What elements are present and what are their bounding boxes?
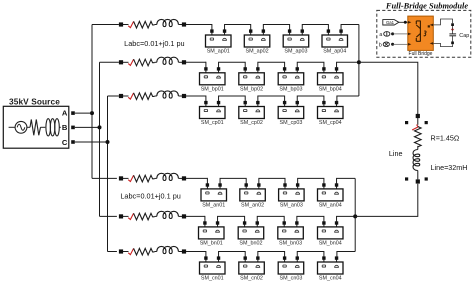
wire SM_bn03 to SM_bn04 (297, 216, 324, 223)
wire cp branch lead-in (121, 95, 129, 97)
wire C stub (75, 141, 108, 143)
svg-text:SM_an03: SM_an03 (280, 203, 303, 209)
wire SM_an01 to SM_an02 (220, 178, 246, 185)
wire R to L bn (155, 215, 157, 217)
svg-text:Ga1: Ga1 (386, 20, 395, 25)
wire SM_ap01 to SM_ap02 (225, 25, 251, 32)
SM block SM_cp02 (239, 101, 264, 126)
wire SM_an02 to SM_an03 (259, 178, 285, 185)
svg-text:SM_ap01: SM_ap01 (207, 49, 230, 55)
inductor line coils (413, 150, 420, 171)
junction node C (106, 140, 110, 144)
SM block SM_cn01 (200, 256, 226, 281)
wire R to L cn (155, 251, 157, 253)
wire L to terminal bp (178, 61, 184, 63)
terminal square an left (119, 176, 123, 180)
dashed detail box (377, 10, 471, 57)
terminal square C (71, 140, 75, 144)
svg-text:Line: Line (389, 149, 403, 158)
SM block SM_bp03 (278, 67, 304, 92)
capacitor Cap plates (452, 26, 454, 34)
resistor R_bn red polarity mark (128, 213, 133, 219)
capacitor Cap red mark (451, 28, 454, 31)
resistor R_cn zigzag (134, 248, 155, 255)
terminal square ap left (119, 22, 123, 26)
svg-text:Full-Bridge Submodule: Full-Bridge Submodule (385, 1, 468, 10)
svg-text:SM_an04: SM_an04 (319, 203, 342, 209)
wire bottom bus to cn chain (337, 252, 355, 259)
wire bottom bus to line (355, 184, 418, 217)
wire R to L bp (155, 61, 157, 63)
wire SM_cp02 to SM_cp03 (258, 96, 285, 103)
Line block corner handles (405, 121, 428, 181)
svg-text:B: B (62, 123, 68, 132)
source inner wire (27, 126, 30, 128)
SM block SM_bn02 (238, 221, 264, 246)
wire SM_an03 to SM_an04 (298, 178, 324, 185)
svg-text:A: A (62, 109, 68, 118)
terminal square bn left (119, 214, 123, 218)
SM block SM_cn03 (278, 256, 304, 281)
svg-text:b: b (379, 42, 382, 48)
inductor L_cp coils (157, 91, 179, 98)
resistor R_cp red polarity mark (128, 93, 133, 99)
wire SM_cp01 to SM_cp02 (219, 96, 246, 103)
terminal square cn right (182, 249, 186, 253)
wire SM_cp03 to SM_cp04 (297, 96, 324, 103)
svg-text:SM_an01: SM_an01 (202, 203, 225, 209)
wire SM_ap03 to SM_ap04 (302, 25, 328, 32)
wire SM_bn02 to SM_bn03 (257, 216, 284, 223)
source inner inductor (46, 119, 51, 136)
SM block SM_cp01 (200, 101, 226, 126)
svg-text:SM_cp04: SM_cp04 (319, 120, 342, 126)
SM block SM_bp04 (318, 67, 344, 92)
wire B stub (75, 126, 100, 128)
svg-text:SM_cn03: SM_cn03 (280, 276, 303, 282)
junction top bus node (357, 60, 361, 64)
SM block SM_ap01 (206, 29, 232, 54)
svg-text:SM_cn02: SM_cn02 (240, 276, 263, 282)
svg-text:Full Bridge: Full Bridge (409, 51, 433, 57)
wire SM_bp01 to SM_bp02 (219, 62, 246, 69)
terminal square cn left (119, 249, 123, 253)
svg-text:a: a (379, 32, 382, 38)
resistor R_cn red polarity mark (128, 248, 133, 254)
wire phase A vertical bus (91, 25, 93, 179)
svg-text:SM_bn01: SM_bn01 (200, 241, 223, 247)
resistor R_an red polarity mark (128, 175, 133, 181)
SM block SM_bn01 (199, 221, 225, 246)
wire C to cn branch (108, 251, 117, 253)
svg-text:Labc=0.01+j0.1 pu: Labc=0.01+j0.1 pu (120, 192, 180, 201)
wire entry to SM_an01 (206, 178, 209, 185)
terminal square an right (182, 176, 186, 180)
SM block SM_ap04 (322, 29, 348, 54)
terminal square bp right (182, 60, 186, 64)
junction node B (98, 125, 102, 129)
wire branch ap to chain (186, 24, 212, 26)
wire L to terminal cn (178, 251, 184, 253)
terminal square B (71, 126, 75, 130)
wire ap branch lead-in (121, 24, 129, 26)
svg-text:SM_cp03: SM_cp03 (280, 120, 303, 126)
SM block SM_bn04 (318, 221, 344, 246)
wire b to full bridge (393, 43, 408, 45)
svg-text:SM_bn04: SM_bn04 (319, 241, 342, 247)
Line terminal square bottom (416, 179, 420, 183)
SM block SM_cp03 (278, 101, 304, 126)
full bridge block U1 (408, 16, 434, 50)
wire branch cn to chain (186, 251, 206, 253)
wire C to cp branch (108, 95, 119, 97)
resistor R line zigzag (414, 127, 421, 147)
wire A to ap branch (92, 24, 119, 26)
wire Line bottom lead (417, 171, 419, 180)
wire R to L line (417, 146, 419, 150)
wire bn branch lead-in (121, 215, 129, 217)
port a (379, 32, 394, 38)
svg-text:SM_bp03: SM_bp03 (279, 87, 302, 93)
svg-text:SM_an02: SM_an02 (241, 203, 264, 209)
wire an chain exit to bottom bus (337, 178, 356, 185)
SM block SM_cn04 (318, 256, 344, 281)
svg-text:SM_cn01: SM_cn01 (201, 276, 224, 282)
wire L to terminal bn (178, 215, 184, 217)
wire top bus to cp chain (337, 96, 359, 103)
wire A to an branch (92, 177, 117, 179)
wire entry to SM_bn01 (203, 216, 206, 223)
wire SM_bp03 to SM_bp04 (297, 62, 324, 69)
SM block SM_ap03 (283, 29, 309, 54)
Ga1 goto tag (383, 20, 399, 25)
svg-text:35kV Source: 35kV Source (9, 96, 60, 106)
wire entry to SM_cp01 (204, 96, 207, 103)
junction node A (90, 111, 94, 115)
resistor R_bn zigzag (134, 213, 155, 220)
wire branch bn to chain (186, 215, 205, 217)
wire entry to SM_ap01 (210, 25, 213, 32)
wire full bridge lower output (433, 43, 452, 46)
SM block SM_bn03 (278, 221, 304, 246)
wire bottom bus vertical (354, 178, 356, 251)
wire full bridge upper output (433, 19, 452, 25)
source V1 AC symbol lead (9, 126, 15, 128)
svg-text:SM_cn04: SM_cn04 (319, 276, 342, 282)
wire B to bn branch (100, 215, 117, 217)
svg-text:SM_bn03: SM_bn03 (279, 241, 302, 247)
terminal square cp right (182, 94, 186, 98)
wire A stub (75, 112, 92, 114)
svg-text:SM_bp01: SM_bp01 (201, 87, 224, 93)
SM block SM_cn02 (239, 256, 264, 281)
wire top bus to line (359, 62, 418, 114)
resistor R_bp red polarity mark (128, 59, 133, 65)
wire Ga1 to full bridge (399, 21, 408, 23)
wire L to terminal an (178, 177, 184, 179)
wire R to L an (155, 177, 157, 179)
SM block SM_bp02 (239, 67, 264, 92)
svg-text:SM_ap03: SM_ap03 (284, 49, 307, 55)
wire ap chain exit to top bus (341, 25, 359, 32)
svg-text:R=1.45Ω: R=1.45Ω (431, 133, 460, 142)
wire SM_ap02 to SM_ap03 (263, 25, 289, 32)
wire entry to SM_bp01 (204, 62, 207, 69)
wire bp chain exit to top bus (337, 62, 359, 69)
svg-text:SM_cp01: SM_cp01 (201, 120, 224, 126)
SM block SM_cp04 (318, 101, 344, 126)
svg-text:SM_bp04: SM_bp04 (319, 87, 342, 93)
wire branch cp to chain (186, 95, 206, 97)
capacitor Cap bottom terminal (451, 42, 454, 45)
port b (379, 42, 394, 48)
terminal square cp left (119, 94, 123, 98)
SM block SM_bp01 (200, 67, 226, 92)
svg-text:SM_bn02: SM_bn02 (239, 241, 262, 247)
wire a to full bridge (393, 33, 408, 35)
svg-text:SM_cp02: SM_cp02 (240, 120, 263, 126)
Line terminal square top (416, 114, 420, 118)
SM block SM_an03 (279, 183, 305, 208)
capacitor Cap top terminal (451, 23, 454, 26)
wire an branch lead-in (121, 177, 129, 179)
junction bottom bus node (353, 214, 357, 218)
terminal square A (71, 111, 75, 115)
wire R to L cp (155, 95, 157, 97)
resistor R_ap zigzag (134, 21, 155, 28)
terminal square bn right (182, 214, 186, 218)
wire Line top lead (417, 118, 419, 125)
wire SM_bp02 to SM_bp03 (258, 62, 285, 69)
svg-text:Labc=0.01+j0.1 pu: Labc=0.01+j0.1 pu (124, 39, 184, 48)
wire L to terminal ap (178, 24, 184, 26)
SM block SM_ap02 (244, 29, 269, 54)
svg-text:SM_ap04: SM_ap04 (323, 49, 346, 55)
wire phase C vertical bus (107, 96, 109, 252)
wire SM_cn02 to SM_cn03 (258, 252, 285, 259)
source block outline (3, 106, 69, 148)
SM block SM_an04 (318, 183, 344, 208)
wire SM_bn01 to SM_bn02 (218, 216, 245, 223)
wire branch an to chain (186, 177, 207, 179)
svg-text:Line=32mH: Line=32mH (431, 163, 468, 172)
terminal square bp left (119, 60, 123, 64)
wire bp branch lead-in (121, 61, 129, 63)
inductor L_bp coils (157, 57, 179, 64)
resistor R_ap red polarity mark (128, 21, 133, 27)
wire bn chain exit to bottom bus (337, 216, 356, 223)
wire B to bp branch (100, 61, 119, 63)
inductor L_bn coils (157, 211, 179, 218)
wire R to L ap (155, 24, 157, 26)
SM block SM_an02 (240, 183, 265, 208)
resistor R line red mark (412, 125, 418, 130)
wire SM_cn01 to SM_cn02 (219, 252, 246, 259)
inductor L_ap coils (157, 19, 179, 26)
wire SM_cn03 to SM_cn04 (297, 252, 324, 259)
source inner wire 2 (41, 126, 46, 128)
wire cn branch lead-in (121, 251, 129, 253)
wire branch bp to chain (186, 61, 206, 63)
source inner resistor (30, 120, 41, 136)
inductor L_cn coils (157, 246, 179, 253)
source V1 AC circle (15, 121, 27, 133)
wire top bus vertical (358, 25, 360, 97)
svg-text:C: C (62, 138, 68, 147)
inductor L_an coils (157, 173, 179, 180)
wire L to terminal cp (178, 95, 184, 97)
svg-text:SM_ap02: SM_ap02 (246, 49, 269, 55)
resistor R_cp zigzag (134, 93, 155, 100)
svg-text:Cap: Cap (459, 33, 469, 39)
terminal square ap right (182, 22, 186, 26)
resistor R_bp zigzag (134, 59, 155, 66)
wire entry to SM_cn01 (204, 252, 207, 259)
wire phase B vertical bus (99, 62, 101, 216)
svg-text:SM_bp02: SM_bp02 (240, 87, 263, 93)
SM block SM_an01 (201, 183, 227, 208)
resistor R_an zigzag (134, 175, 155, 182)
